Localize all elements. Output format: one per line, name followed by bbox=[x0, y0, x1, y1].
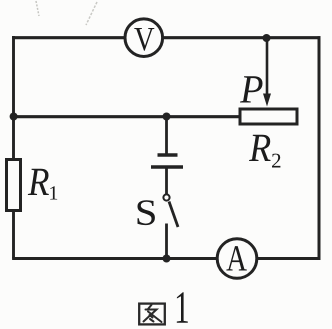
label P bbox=[240, 76, 263, 102]
scratch artifact top-left bbox=[36, 1, 39, 16]
junction dot left-middle bbox=[10, 113, 18, 121]
ammeter letter A bbox=[226, 246, 246, 270]
wire middle horizontal (to rheostat left end) bbox=[14, 115, 239, 118]
voltmeter V circle bbox=[125, 19, 163, 57]
caption numeral 1 bbox=[177, 292, 188, 322]
switch S blade bbox=[169, 202, 178, 228]
wire left rail bbox=[12, 36, 15, 259]
scratch artifact top-middle bbox=[86, 2, 97, 25]
slider arrow shaft bbox=[266, 38, 269, 96]
switch S pivot circle bbox=[163, 194, 169, 200]
junction dot slider top bbox=[263, 34, 271, 42]
junction dot switch bottom bbox=[163, 255, 171, 263]
wire bottom bbox=[12, 257, 320, 260]
voltmeter letter V bbox=[134, 28, 154, 51]
slider arrowhead bbox=[263, 94, 271, 107]
caption glyph 图 (drawn) bbox=[139, 304, 165, 325]
wire battery branch upper bbox=[165, 117, 168, 154]
wire switch to bottom bbox=[165, 224, 168, 259]
label R1 bbox=[28, 169, 49, 195]
junction dot battery top bbox=[163, 113, 171, 121]
label S bbox=[138, 200, 155, 225]
wire right rail bbox=[318, 36, 321, 258]
resistor R2 box (rheostat) bbox=[240, 109, 297, 124]
wire top (left rail top to right rail top) bbox=[12, 36, 320, 39]
wire battery to switch bbox=[165, 167, 168, 194]
ammeter circle bbox=[217, 239, 257, 279]
label R2 bbox=[249, 135, 271, 161]
battery long plate (bottom) bbox=[151, 165, 183, 168]
battery short plate (top) bbox=[158, 153, 178, 156]
resistor R1 box bbox=[7, 160, 21, 211]
